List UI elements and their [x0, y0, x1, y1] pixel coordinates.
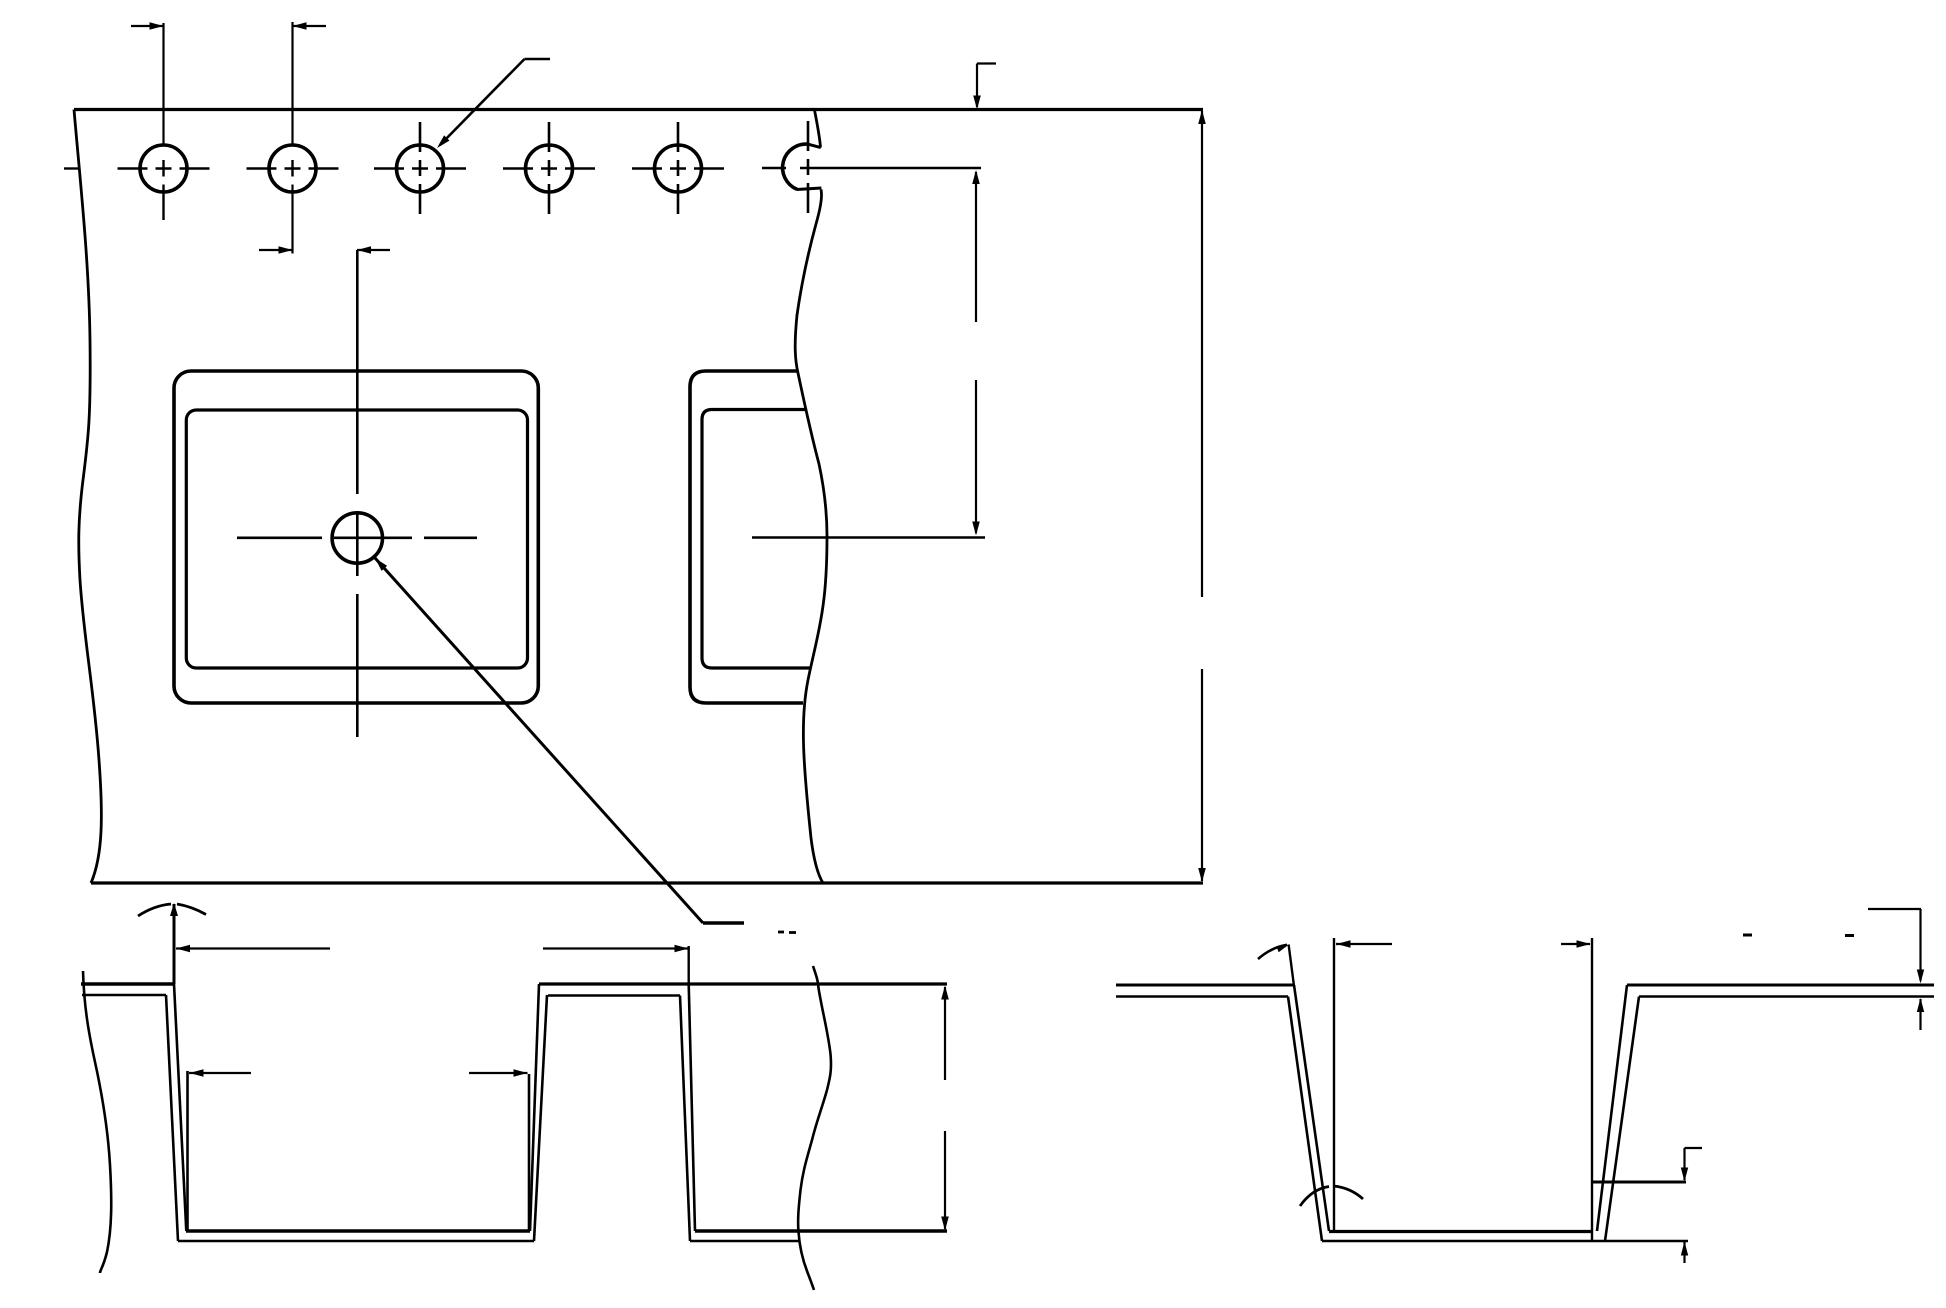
pocket 1 section left wall outer: [166, 995, 178, 1241]
pocket 1 inner outline (cavity bottom): [186, 410, 527, 668]
pocket 2 section left wall outer: [680, 996, 690, 1242]
hole 6 centerline left dash: [762, 167, 786, 169]
hole 1 dimension extension line: [162, 23, 164, 144]
hole 2 extension line lower: [291, 185, 293, 254]
sprocket hole 5: [655, 145, 702, 192]
dim F lower segment: [972, 380, 980, 536]
section left flange bottom surface: [82, 994, 166, 996]
section left break (wavy): [83, 971, 111, 1273]
sprocket hole 2: [269, 145, 316, 192]
hole 4 vertical centerline: [548, 122, 551, 215]
dim A0 left arrow: [189, 1069, 251, 1077]
leader to sprocket hole diameter: [437, 59, 550, 148]
dim B0 right arrow: [1561, 940, 1591, 948]
dim F upper segment: [972, 170, 980, 322]
hole 2 dimension extension line: [291, 22, 293, 144]
hole 5 vertical centerline: [677, 122, 680, 215]
right section bottom outer: [1322, 1240, 1688, 1242]
squiggle break mark on extension: [138, 903, 206, 916]
hole 3 vertical centerline: [419, 122, 422, 215]
dim t corner leader: [1868, 909, 1924, 984]
section middle flange bottom surface: [548, 994, 680, 996]
stray centerline dashes right section: [1743, 934, 1854, 938]
dim P0 left arrow: [131, 22, 164, 30]
dim E corner leader: [973, 64, 996, 110]
pocket 1 center hole: [332, 513, 382, 563]
right section left wall outer: [1288, 997, 1322, 1242]
right section left flange top: [1116, 984, 1294, 987]
dim t lower arrow: [1917, 998, 1924, 1030]
pocket 1 horizontal centerline: [237, 536, 477, 539]
pocket 1 vertical centerline: [356, 250, 359, 737]
pocket 2 section left wall inner: [689, 984, 695, 1231]
pocket 1 outer outline: [174, 371, 538, 703]
tape break line lower part: [795, 190, 827, 884]
hole 6 vertical centerline: [807, 121, 810, 214]
tape bottom edge: [91, 881, 1203, 884]
dim K1 upper: [1681, 1148, 1702, 1182]
hole 6 chord top: [809, 144, 821, 147]
dim K1 lower arrow: [1681, 1242, 1688, 1264]
pocket 2 section bottom inner: [695, 1229, 947, 1232]
dim B0 left arrow: [1336, 940, 1392, 948]
pocket 2 outer outline: [690, 371, 803, 703]
dim P2 left arrow: [259, 246, 293, 254]
draft angle arc arrow: [1258, 945, 1289, 959]
dim K0 line: [941, 986, 949, 1231]
dim W (tape width) line: [1198, 110, 1206, 882]
pocket 2 inner outline: [702, 410, 811, 669]
hole 1 centerline vertical: [162, 160, 164, 220]
dim P2 right arrow: [357, 246, 390, 254]
dim A0 right extension: [528, 1074, 531, 1231]
hole 1 horizontal centerline: [118, 167, 210, 170]
sprocket hole 6 (partial at break): [783, 144, 809, 189]
right section bottom inner: [1329, 1230, 1592, 1233]
dim B0 right extension line: [1591, 938, 1593, 1240]
dim P1 left extension line: [173, 904, 176, 984]
dim P0 right arrow: [293, 22, 327, 30]
pocket 2 section bottom outer: [690, 1240, 799, 1242]
hole 2 centerline vertical: [291, 160, 293, 177]
pocket 1 section bottom inner: [186, 1229, 530, 1232]
hole 6 centerline to dim F: [800, 167, 981, 169]
section middle flange top surface: [539, 982, 947, 985]
sprocket hole 4: [526, 145, 573, 192]
leader from pocket center hole: [375, 558, 744, 923]
dim A0 right arrow: [469, 1069, 528, 1077]
pocket 1 section right wall outer: [534, 995, 547, 1241]
dim P1 line right segment: [543, 945, 689, 952]
stray centerline dashes left section: [778, 931, 796, 934]
hole 2 horizontal centerline: [247, 167, 339, 170]
section break line (wavy tear): [798, 966, 831, 1290]
right section left flange bottom: [1116, 995, 1288, 997]
dim A0 left extension: [186, 1071, 189, 1231]
tape break line (torn edge): [815, 110, 821, 148]
tape top edge: [74, 108, 1203, 111]
pocket 1 section left wall inner: [174, 984, 186, 1231]
dim B0 left extension line: [1333, 938, 1335, 1231]
dim P1 line left segment: [176, 945, 330, 952]
pocket 1 section right wall inner: [530, 984, 539, 1231]
hole 5 horizontal centerline: [632, 167, 724, 170]
pocket 1 section bottom outer: [178, 1240, 534, 1242]
tape left break (wavy edge): [74, 110, 101, 884]
hole 4 horizontal centerline: [503, 167, 595, 170]
right section left wall inner: [1294, 985, 1329, 1231]
right section right wall inner: [1597, 985, 1627, 1231]
draft angle arc at wall bottom: [1300, 1186, 1363, 1206]
hole 6 chord bottom: [797, 188, 822, 190]
sprocket hole 3: [397, 145, 444, 192]
right section right flange top: [1627, 984, 1934, 987]
hole 3 horizontal centerline: [374, 167, 466, 170]
draft angle extension line: [1289, 945, 1294, 987]
pocket 2 horizontal centerline: [752, 536, 985, 538]
hole row centerline overshoot: [64, 167, 78, 169]
right section right wall outer: [1605, 997, 1639, 1242]
dim P1 right extension line: [688, 946, 690, 984]
sprocket hole 1: [140, 145, 187, 192]
right section right flange bottom: [1639, 995, 1934, 997]
step reference line: [1592, 1181, 1686, 1184]
section left flange top surface: [81, 982, 174, 985]
